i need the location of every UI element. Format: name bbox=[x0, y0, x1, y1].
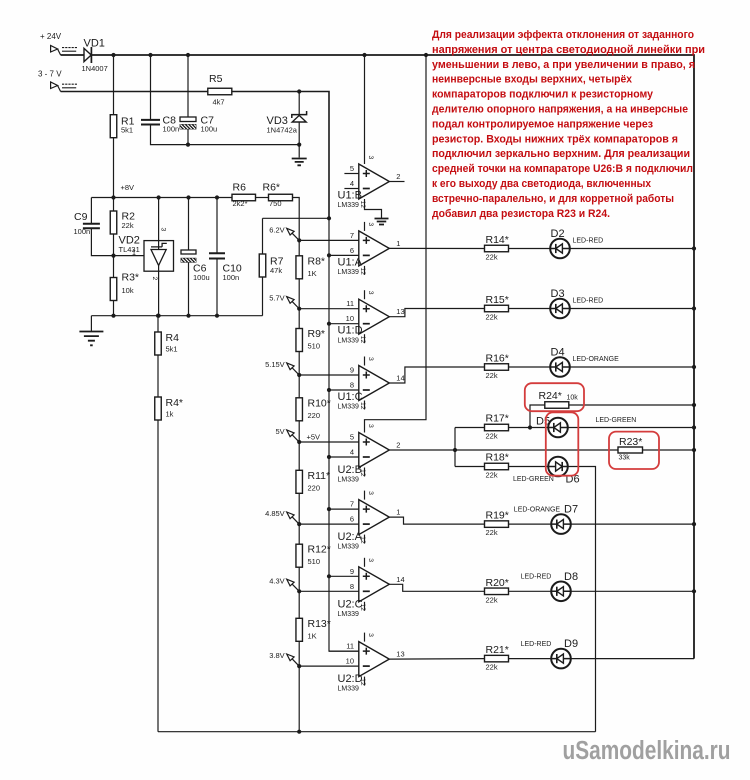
svg-text:LED-GREEN: LED-GREEN bbox=[513, 476, 554, 483]
svg-text:5.7V: 5.7V bbox=[269, 294, 284, 303]
svg-text:11: 11 bbox=[346, 642, 354, 651]
svg-text:3: 3 bbox=[367, 291, 374, 295]
svg-text:D2: D2 bbox=[551, 228, 565, 240]
svg-text:добавил два резистора R23 и R2: добавил два резистора R23 и R24. bbox=[432, 208, 610, 220]
resistor R6* bbox=[263, 182, 293, 209]
svg-text:R16*: R16* bbox=[486, 353, 509, 365]
svg-text:R4*: R4* bbox=[166, 397, 184, 409]
resistor R5 bbox=[208, 73, 232, 107]
svg-text:Для реализации эффекта отклоне: Для реализации эффекта отклонения от зад… bbox=[432, 29, 694, 41]
wire row D2 bbox=[509, 246, 697, 250]
resistor R19* bbox=[485, 510, 509, 538]
LED D5 bbox=[536, 416, 636, 438]
svg-text:D9: D9 bbox=[564, 638, 578, 650]
svg-text:R12*: R12* bbox=[308, 544, 331, 556]
svg-text:R8*: R8* bbox=[308, 255, 326, 267]
svg-text:к его выходу два светодиода, в: к его выходу два светодиода, включенных bbox=[432, 178, 652, 190]
resistor R15* bbox=[485, 294, 509, 322]
svg-text:4: 4 bbox=[350, 179, 354, 188]
op-amp U2:C bbox=[299, 558, 404, 618]
svg-text:6.2V: 6.2V bbox=[269, 225, 284, 234]
svg-text:LM339: LM339 bbox=[338, 404, 360, 411]
svg-text:7: 7 bbox=[350, 231, 354, 240]
svg-text:R6: R6 bbox=[233, 182, 247, 194]
wire U2:C out bbox=[389, 584, 484, 591]
svg-text:R6*: R6* bbox=[263, 182, 281, 194]
wire row D6 bbox=[455, 467, 596, 732]
resistor R3* bbox=[110, 256, 139, 316]
svg-text:LM339: LM339 bbox=[338, 269, 360, 276]
resistor R9* bbox=[296, 328, 325, 352]
svg-text:12: 12 bbox=[359, 336, 366, 344]
annotation red text bbox=[432, 29, 705, 220]
svg-text:3: 3 bbox=[367, 357, 374, 361]
svg-text:1: 1 bbox=[396, 508, 400, 517]
svg-text:4: 4 bbox=[350, 448, 354, 457]
watermark uSamodelkina.ru bbox=[563, 737, 731, 765]
resistor R1 bbox=[110, 55, 134, 198]
op-amp U1:C bbox=[299, 357, 404, 411]
svg-text:компараторов подключил к резис: компараторов подключил к резисторному bbox=[432, 89, 654, 101]
junction dots bus bbox=[327, 216, 331, 578]
svg-text:U1:D: U1:D bbox=[338, 325, 363, 337]
svg-text:R21*: R21* bbox=[486, 644, 509, 656]
capacitor C10 bbox=[209, 198, 242, 316]
resistor R23* bbox=[618, 436, 696, 462]
svg-text:3: 3 bbox=[160, 228, 167, 232]
svg-text:750: 750 bbox=[269, 199, 282, 208]
svg-text:LM339: LM339 bbox=[338, 544, 360, 551]
svg-text:100n: 100n bbox=[223, 273, 240, 282]
svg-text:12: 12 bbox=[359, 402, 366, 410]
resistor R18* bbox=[485, 452, 509, 480]
svg-text:U1:B: U1:B bbox=[338, 190, 362, 202]
svg-text:U2:A: U2:A bbox=[338, 531, 363, 543]
svg-text:4k7: 4k7 bbox=[213, 98, 225, 107]
svg-text:R14*: R14* bbox=[486, 234, 509, 246]
resistor R21* bbox=[485, 644, 509, 672]
zener VD3 bbox=[267, 92, 307, 158]
op-amp U1:D bbox=[299, 290, 404, 344]
svg-text:6: 6 bbox=[350, 246, 354, 255]
svg-text:LED-RED: LED-RED bbox=[521, 574, 552, 581]
svg-text:33k: 33k bbox=[619, 455, 631, 462]
highlight box D5-D6 bbox=[546, 412, 579, 475]
svg-text:5k1: 5k1 bbox=[166, 345, 178, 354]
svg-text:10k: 10k bbox=[122, 286, 134, 295]
svg-text:подал контролируемое напряжени: подал контролируемое напряжение через bbox=[432, 118, 653, 130]
wire ground rail bbox=[91, 316, 262, 331]
ground VD3 bbox=[292, 159, 307, 166]
svg-text:R11*: R11* bbox=[308, 470, 331, 482]
svg-text:R24*: R24* bbox=[539, 390, 562, 402]
LED D2 bbox=[550, 228, 603, 258]
svg-text:встречно-паралельно, и для кор: встречно-паралельно, и для корретной раб… bbox=[432, 193, 674, 205]
LED D4 bbox=[550, 347, 619, 377]
svg-text:U1:A: U1:A bbox=[338, 256, 363, 268]
resistor R4* bbox=[155, 397, 183, 732]
svg-text:LED-RED: LED-RED bbox=[573, 238, 604, 245]
resistor R16* bbox=[485, 353, 509, 381]
svg-text:R13*: R13* bbox=[308, 618, 331, 630]
svg-text:средней точки на компараторе U: средней точки на компараторе U26:В я под… bbox=[432, 163, 693, 175]
LED D3 bbox=[550, 288, 603, 318]
svg-text:R9*: R9* bbox=[308, 328, 326, 340]
svg-text:14: 14 bbox=[396, 575, 404, 584]
svg-text:22k: 22k bbox=[486, 471, 498, 480]
resistor R2 bbox=[110, 198, 135, 256]
junction dots +8V rail bbox=[111, 195, 219, 199]
svg-text:LED-ORANGE: LED-ORANGE bbox=[573, 356, 620, 363]
svg-text:100n: 100n bbox=[74, 227, 91, 236]
node tap 4.85V bbox=[265, 509, 301, 526]
LED D8 bbox=[521, 571, 578, 601]
svg-text:неинверсные входы верхних, чет: неинверсные входы верхних, четырёх bbox=[432, 74, 633, 86]
op-amp U2:D bbox=[299, 633, 404, 693]
svg-text:3: 3 bbox=[367, 558, 374, 562]
svg-text:+5V: +5V bbox=[307, 433, 321, 442]
svg-text:14: 14 bbox=[396, 374, 404, 383]
wire row D3 bbox=[509, 306, 697, 310]
svg-text:22k: 22k bbox=[486, 253, 498, 262]
node tap 3.8V bbox=[269, 651, 301, 668]
svg-text:U1:C: U1:C bbox=[338, 391, 363, 403]
resistor R10* bbox=[296, 397, 331, 421]
svg-text:R5: R5 bbox=[209, 73, 223, 85]
capacitor C6 bbox=[179, 198, 210, 316]
wire U2:A out bbox=[389, 517, 484, 524]
LED D6 bbox=[513, 457, 580, 486]
svg-text:LM339: LM339 bbox=[338, 202, 360, 209]
svg-text:3 - 7 V: 3 - 7 V bbox=[38, 70, 62, 79]
svg-text:R10*: R10* bbox=[308, 397, 331, 409]
svg-text:U2:B: U2:B bbox=[338, 464, 362, 476]
svg-text:13: 13 bbox=[396, 650, 404, 659]
svg-text:LM339: LM339 bbox=[338, 337, 360, 344]
svg-text:220: 220 bbox=[308, 483, 321, 492]
junction dots on +24V rail bbox=[111, 53, 428, 57]
node tap 5.7V bbox=[269, 294, 301, 311]
svg-text:22k: 22k bbox=[486, 432, 498, 441]
resistor R8* bbox=[296, 255, 325, 279]
resistor R17* bbox=[485, 413, 509, 441]
svg-text:10: 10 bbox=[346, 314, 354, 323]
svg-text:R4: R4 bbox=[166, 332, 180, 344]
svg-text:подключил зеркально верхним.: подключил зеркально верхним. Для реализа… bbox=[432, 148, 690, 160]
svg-text:2: 2 bbox=[396, 172, 400, 181]
ground main bbox=[79, 332, 103, 346]
svg-text:R3*: R3* bbox=[122, 272, 140, 284]
svg-text:D7: D7 bbox=[564, 504, 578, 516]
wire +8V rail bbox=[91, 183, 299, 240]
wire U1:A out bbox=[389, 247, 484, 249]
svg-text:VD1: VD1 bbox=[84, 38, 105, 50]
svg-text:100u: 100u bbox=[201, 125, 218, 134]
svg-text:R17*: R17* bbox=[486, 413, 509, 425]
wire U1:C out bbox=[389, 367, 484, 383]
node tap 4.3V bbox=[269, 576, 301, 593]
svg-text:LM339: LM339 bbox=[338, 611, 360, 618]
svg-text:8: 8 bbox=[350, 582, 354, 591]
svg-text:R19*: R19* bbox=[486, 510, 509, 522]
svg-text:3: 3 bbox=[367, 633, 374, 637]
svg-text:22k: 22k bbox=[486, 528, 498, 537]
svg-text:2: 2 bbox=[396, 441, 400, 450]
wire U2:B out bbox=[389, 428, 694, 467]
svg-text:+ 24V: + 24V bbox=[40, 32, 62, 41]
svg-text:1K: 1K bbox=[308, 631, 317, 640]
node tap 6.2V bbox=[269, 225, 301, 242]
op-amp U2:A bbox=[299, 491, 400, 551]
svg-text:5k1: 5k1 bbox=[121, 126, 133, 135]
svg-text:R18*: R18* bbox=[486, 452, 509, 464]
svg-text:4.3V: 4.3V bbox=[269, 576, 284, 585]
svg-text:5: 5 bbox=[350, 164, 354, 173]
svg-text:3: 3 bbox=[367, 222, 374, 226]
svg-text:TL431: TL431 bbox=[119, 245, 140, 254]
capacitor C8 bbox=[141, 55, 299, 145]
svg-text:510: 510 bbox=[308, 342, 321, 351]
svg-text:5: 5 bbox=[350, 433, 354, 442]
wire row D4 bbox=[509, 365, 697, 369]
svg-text:5.15V: 5.15V bbox=[265, 360, 285, 369]
svg-text:1N4742a: 1N4742a bbox=[267, 126, 298, 135]
svg-text:9: 9 bbox=[350, 366, 354, 375]
svg-text:9: 9 bbox=[350, 567, 354, 576]
wire bottom rail bbox=[158, 730, 596, 734]
wire row D8 bbox=[509, 589, 697, 593]
svg-text:2k2*: 2k2* bbox=[233, 199, 248, 208]
svg-text:D3: D3 bbox=[551, 288, 565, 300]
svg-text:22k: 22k bbox=[486, 663, 498, 672]
junction dots ground rail bbox=[111, 314, 219, 318]
resistor R13* bbox=[296, 618, 331, 642]
op-amp U1:A bbox=[299, 222, 400, 276]
svg-text:LED-RED: LED-RED bbox=[521, 641, 552, 648]
wire inverting bus bbox=[329, 218, 359, 651]
resistor R20* bbox=[485, 577, 509, 605]
svg-text:10k: 10k bbox=[567, 395, 579, 402]
svg-text:uSamodelkina.ru: uSamodelkina.ru bbox=[563, 737, 731, 765]
resistor R24* bbox=[528, 390, 696, 430]
svg-text:1k: 1k bbox=[166, 410, 174, 419]
wire row D9 bbox=[509, 658, 695, 660]
svg-text:напряжения от центра светодиод: напряжения от центра светодиодной линейк… bbox=[432, 44, 705, 56]
op-amp U1:B bbox=[338, 55, 405, 219]
svg-text:LED-ORANGE: LED-ORANGE bbox=[514, 506, 561, 513]
wire U2:D out bbox=[389, 658, 484, 661]
wire divider chain bbox=[298, 240, 300, 731]
svg-text:резистор. Входы нижних трёх ко: резистор. Входы нижних трёх компараторов… bbox=[432, 133, 678, 145]
wire row D5 bbox=[455, 425, 696, 429]
svg-text:22k: 22k bbox=[486, 313, 498, 322]
svg-text:11: 11 bbox=[346, 299, 354, 308]
LED D7 bbox=[514, 504, 578, 534]
node 3-7V input bbox=[38, 70, 77, 92]
svg-text:100n: 100n bbox=[163, 125, 180, 134]
wire 3-7V line bbox=[61, 92, 329, 219]
wire U1:D out bbox=[389, 309, 484, 317]
svg-text:R23*: R23* bbox=[619, 436, 642, 448]
svg-text:C9: C9 bbox=[74, 211, 88, 223]
highlight box R23 bbox=[609, 432, 659, 469]
wire +24V rail bbox=[61, 55, 694, 659]
svg-text:D4: D4 bbox=[551, 347, 565, 359]
svg-text:3: 3 bbox=[367, 491, 374, 495]
resistor R4 bbox=[155, 316, 179, 397]
highlight box R24 bbox=[525, 383, 584, 411]
svg-text:+8V: +8V bbox=[121, 183, 135, 192]
resistor R14* bbox=[485, 234, 509, 262]
svg-text:1K: 1K bbox=[308, 269, 317, 278]
node tap 5.15V bbox=[265, 360, 301, 377]
svg-text:U2:D: U2:D bbox=[338, 673, 363, 685]
svg-text:D5: D5 bbox=[536, 416, 550, 428]
LED D9 bbox=[521, 638, 578, 668]
svg-text:7: 7 bbox=[350, 500, 354, 509]
op-amp U2:B bbox=[299, 55, 426, 484]
junction VD3 tap bbox=[297, 89, 301, 93]
svg-text:2: 2 bbox=[151, 277, 158, 281]
svg-text:R15*: R15* bbox=[486, 294, 509, 306]
svg-text:22k: 22k bbox=[486, 595, 498, 604]
wire row D7 bbox=[509, 522, 697, 526]
node tap 5V bbox=[276, 427, 321, 444]
resistor R12* bbox=[296, 544, 331, 568]
svg-text:1N4007: 1N4007 bbox=[82, 64, 108, 73]
svg-text:12: 12 bbox=[359, 201, 366, 209]
svg-text:5V: 5V bbox=[276, 427, 285, 436]
svg-text:47k: 47k bbox=[270, 266, 282, 275]
svg-text:220: 220 bbox=[308, 411, 321, 420]
shunt regulator VD2 TL431 bbox=[119, 198, 174, 316]
svg-text:R20*: R20* bbox=[486, 577, 509, 589]
svg-text:10: 10 bbox=[346, 657, 354, 666]
svg-text:LED-GREEN: LED-GREEN bbox=[596, 417, 637, 424]
svg-text:4.85V: 4.85V bbox=[265, 509, 285, 518]
ground U1:B pin12 bbox=[375, 219, 389, 225]
svg-text:8: 8 bbox=[350, 381, 354, 390]
node +24V input bbox=[40, 32, 77, 55]
resistor R11* bbox=[296, 470, 330, 494]
svg-text:делителю опорного напряжения,: делителю опорного напряжения, а на инвер… bbox=[432, 104, 688, 116]
capacitor C7 bbox=[177, 55, 217, 147]
svg-text:13: 13 bbox=[396, 307, 404, 316]
svg-text:U2:C: U2:C bbox=[338, 598, 363, 610]
svg-text:510: 510 bbox=[308, 557, 321, 566]
diode VD1 bbox=[82, 38, 108, 74]
svg-text:1: 1 bbox=[132, 250, 136, 257]
junction R2/R3/C9 bbox=[111, 254, 115, 258]
svg-text:3: 3 bbox=[367, 424, 374, 428]
svg-text:22k: 22k bbox=[122, 221, 134, 230]
svg-text:D8: D8 bbox=[564, 571, 578, 583]
svg-text:100u: 100u bbox=[193, 273, 210, 282]
svg-text:3.8V: 3.8V bbox=[269, 651, 284, 660]
svg-text:3: 3 bbox=[367, 156, 374, 160]
svg-text:12: 12 bbox=[359, 267, 366, 275]
capacitor C9 bbox=[74, 198, 145, 256]
svg-text:LM339: LM339 bbox=[338, 477, 360, 484]
svg-text:LM339: LM339 bbox=[338, 686, 360, 693]
svg-text:6: 6 bbox=[350, 515, 354, 524]
svg-text:LED-RED: LED-RED bbox=[573, 298, 604, 305]
resistor R7 bbox=[259, 218, 329, 315]
svg-text:1: 1 bbox=[396, 239, 400, 248]
resistor R6 bbox=[232, 182, 256, 209]
svg-text:уменьшении в лево, а при увели: уменьшении в лево, а при увеличении в пр… bbox=[432, 59, 695, 71]
svg-text:22k: 22k bbox=[486, 371, 498, 380]
